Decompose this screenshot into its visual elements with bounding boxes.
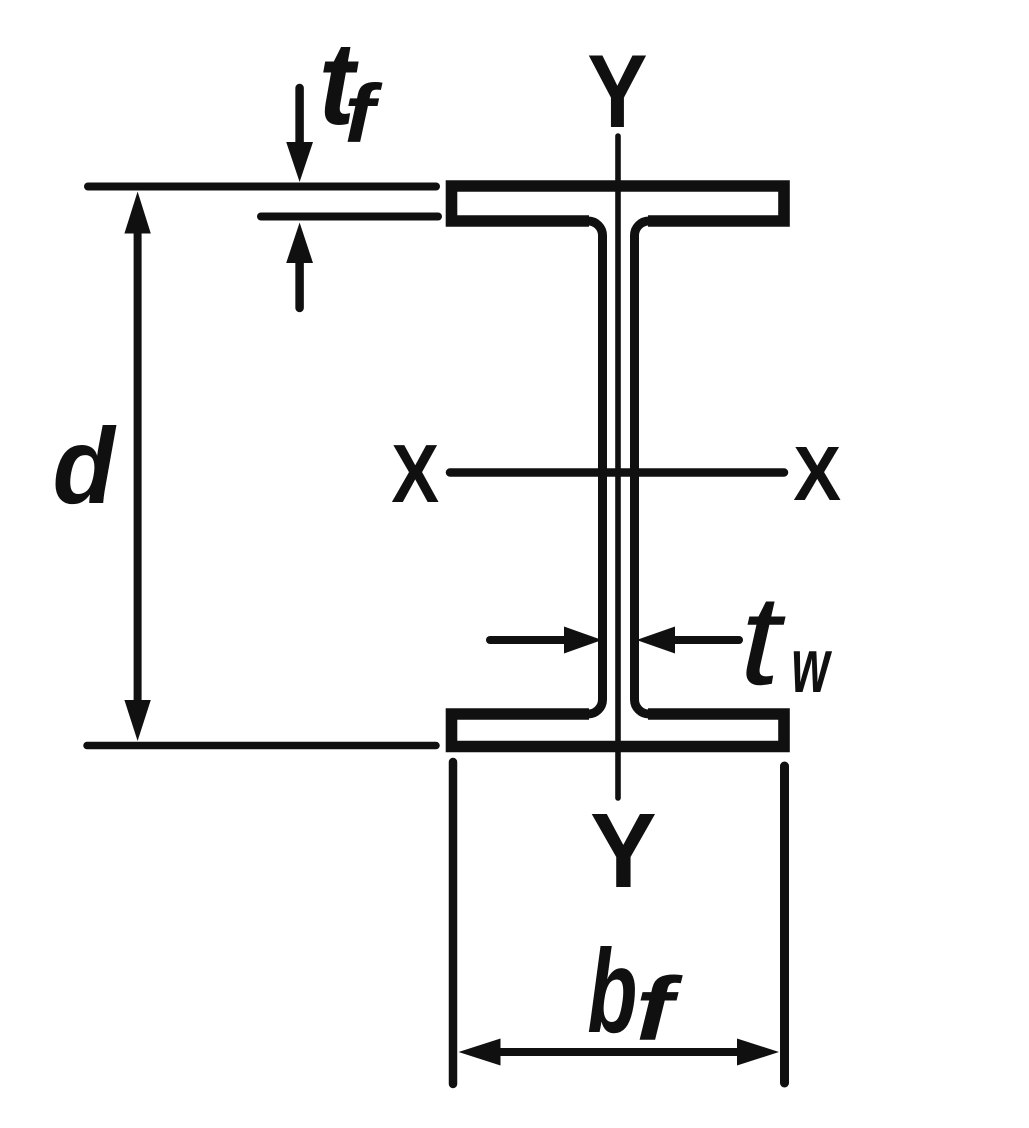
d arrowhead up [124, 192, 150, 234]
t_f down arrow [295, 88, 304, 147]
I-beam web right line with fillets [635, 221, 650, 714]
d arrowhead down [124, 700, 150, 741]
extension line top (d / t_f upper) [88, 183, 436, 191]
b_f extension line left [449, 762, 458, 1084]
svg-text:X: X [793, 431, 841, 517]
svg-text:Y: Y [590, 792, 657, 910]
I-beam top flange outline [452, 186, 785, 221]
svg-text:f: f [636, 959, 684, 1060]
b_f dimension line with arrowheads [497, 1048, 741, 1056]
svg-text:Y: Y [587, 34, 647, 150]
I-beam web left line with fillets [588, 221, 603, 714]
X centerline (horizontal axis) [450, 468, 784, 477]
t_w left arrow [490, 636, 567, 644]
I-beam bottom flange outline [452, 714, 785, 747]
b_f extension line right [780, 766, 789, 1083]
svg-text:d: d [53, 405, 117, 526]
extension line t_f lower [261, 213, 438, 221]
d dimension line with arrowheads [134, 228, 142, 703]
t_w right arrow [672, 636, 739, 644]
extension line bottom (d) [87, 742, 436, 750]
svg-text:t: t [740, 569, 786, 712]
t_f up arrow [295, 262, 304, 308]
Y centerline (vertical axis) [615, 136, 621, 798]
svg-text:w: w [791, 623, 832, 709]
svg-text:X: X [391, 427, 439, 520]
svg-text:f: f [344, 69, 383, 160]
svg-text:b: b [587, 925, 637, 1058]
